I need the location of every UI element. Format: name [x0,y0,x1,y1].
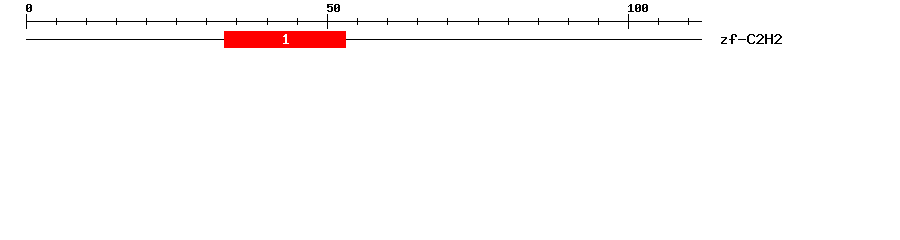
domain number label 1 [283,34,289,44]
ruler major ticks at 0, 50, 100 [26,14,629,29]
domain name label zf-C2H2 [721,34,782,44]
ruler minor ticks every 5 residues [56,18,689,25]
ruler label 50 [327,4,340,12]
ruler label 0 [26,4,32,12]
domain box (zf-C2H2, residues 33-53) [224,31,346,48]
protein backbone line [26,39,702,40]
ruler label 100 [628,4,648,12]
ruler scale line [26,21,702,22]
